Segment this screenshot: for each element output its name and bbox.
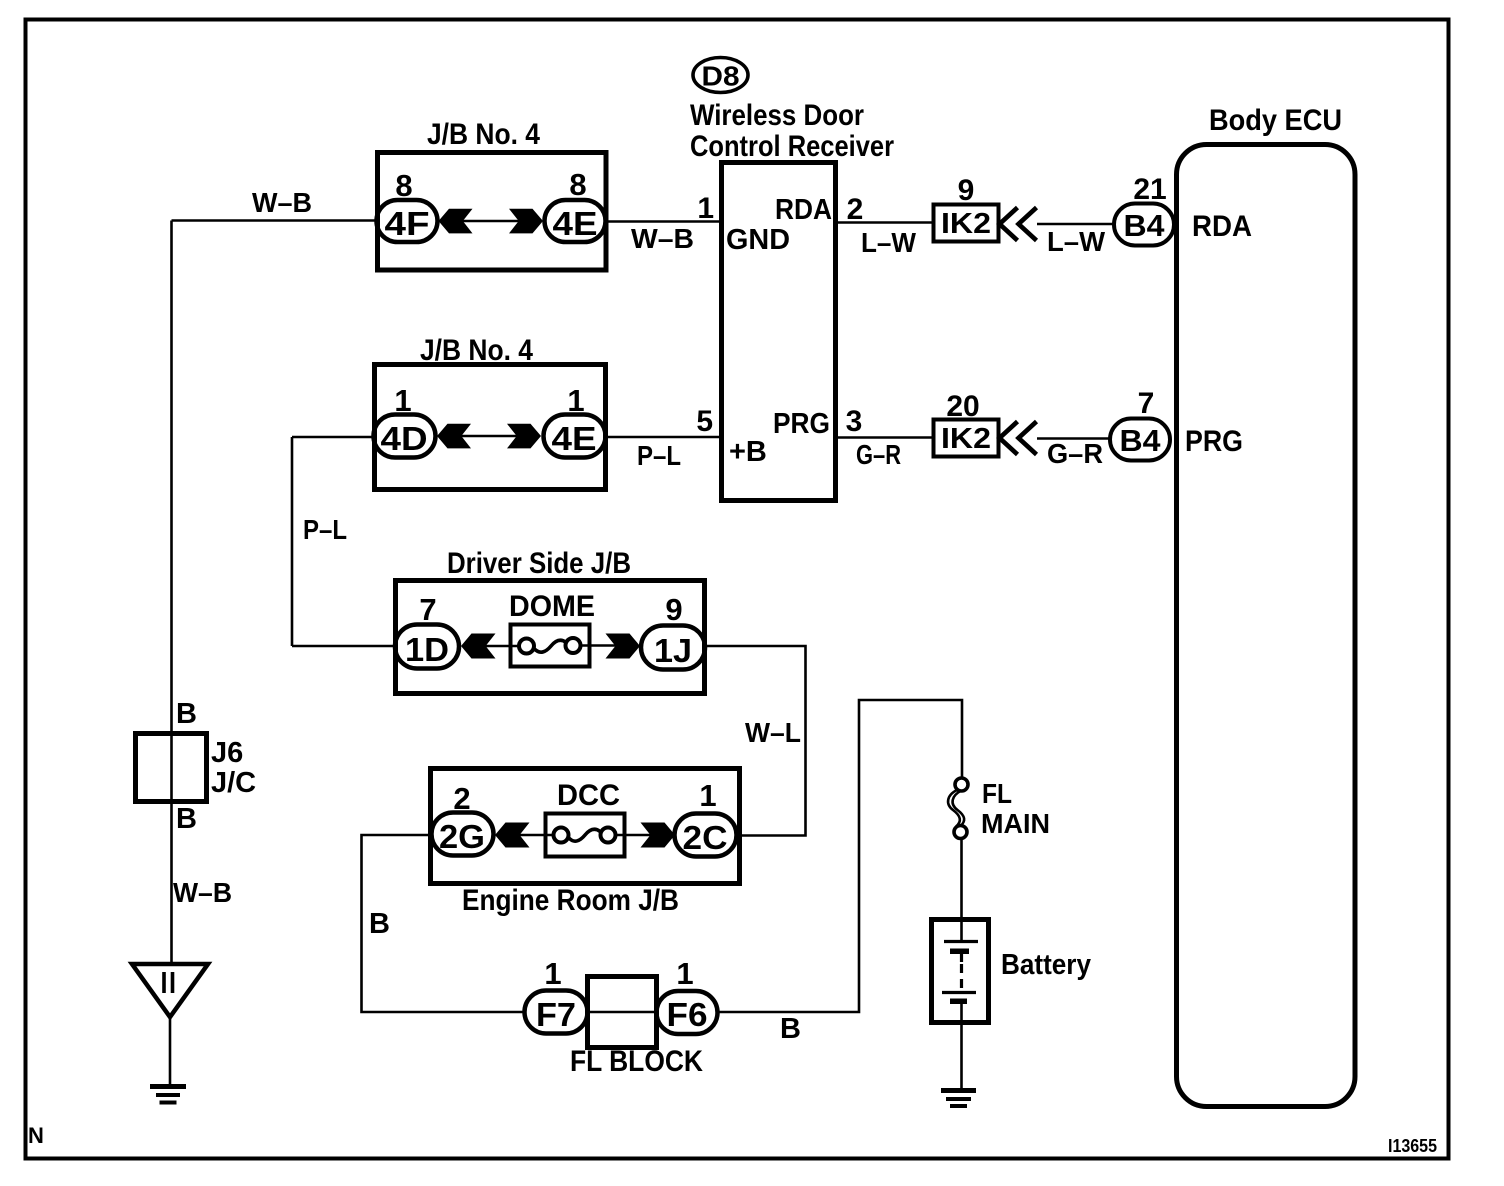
- fuse DCC right terminal: [601, 828, 616, 843]
- connector B4 PRG oval: [1110, 419, 1170, 461]
- svg-text:PRG: PRG: [1185, 425, 1243, 458]
- svg-text:Wireless Door: Wireless Door: [690, 99, 864, 132]
- svg-text:W–B: W–B: [252, 187, 312, 218]
- svg-text:DOME: DOME: [509, 590, 595, 623]
- svg-text:IK2: IK2: [941, 423, 991, 455]
- svg-text:4D: 4D: [381, 420, 428, 457]
- svg-text:J6: J6: [211, 737, 243, 769]
- fuse DOME right terminal: [566, 638, 581, 653]
- wire P-L into 1D: [292, 645, 395, 648]
- arrow chevron left 1D: [461, 634, 496, 659]
- battery thick bar: [950, 949, 969, 955]
- fuse DCC element: [569, 829, 601, 841]
- svg-text:B: B: [176, 803, 197, 835]
- svg-text:L–W: L–W: [861, 227, 917, 258]
- connector 4D oval: [374, 415, 436, 458]
- connector 4E oval: [545, 200, 606, 242]
- connector 2G oval: [432, 813, 494, 856]
- arrow chevron left 2G: [495, 823, 530, 848]
- svg-text:1: 1: [544, 956, 561, 991]
- connector 1J oval: [641, 626, 705, 670]
- connector F6 oval: [657, 991, 718, 1034]
- wire through FL BLOCK: [588, 1011, 656, 1013]
- svg-text:IK2: IK2: [941, 208, 991, 240]
- svg-text:9: 9: [665, 592, 682, 627]
- connector 2C oval: [675, 814, 737, 857]
- ground point II triangle: [132, 964, 208, 1017]
- svg-text:2C: 2C: [683, 819, 728, 856]
- svg-text:P–L: P–L: [637, 440, 681, 471]
- svg-text:2: 2: [453, 781, 470, 816]
- junction block J/B No.4 lower box: [375, 365, 606, 490]
- wire P-L vertical: [291, 437, 294, 646]
- junction block J/B No.4 upper box: [378, 153, 607, 271]
- svg-text:MAIN: MAIN: [981, 808, 1050, 839]
- wire 4E2 to receiver +B: [607, 436, 721, 439]
- svg-text:2G: 2G: [439, 818, 485, 855]
- ground point II marking: [162, 972, 166, 993]
- svg-text:DCC: DCC: [557, 779, 620, 812]
- fuse DCC box: [546, 814, 625, 857]
- wire receiver PRG to IK2: [836, 436, 933, 439]
- battery box: [932, 920, 989, 1023]
- svg-text:1D: 1D: [405, 631, 449, 668]
- svg-text:RDA: RDA: [775, 194, 832, 226]
- svg-text:B: B: [780, 1013, 801, 1045]
- arrow chevron left row1: [439, 209, 473, 234]
- svg-text:1: 1: [567, 383, 584, 418]
- svg-text:D8: D8: [702, 61, 740, 92]
- battery negative plate: [942, 991, 976, 994]
- battery dashed divider: [960, 964, 963, 990]
- svg-text:J/B No. 4: J/B No. 4: [420, 334, 533, 367]
- wire 1D to fuse: [484, 645, 519, 647]
- wire FL MAIN to battery: [960, 838, 963, 941]
- connector IK2 upper box: [934, 205, 999, 242]
- svg-text:20: 20: [946, 390, 979, 423]
- svg-text:W–L: W–L: [745, 717, 801, 748]
- wire F6 to FL MAIN: [717, 700, 962, 1012]
- svg-text:+B: +B: [729, 436, 767, 468]
- svg-text:21: 21: [1133, 173, 1166, 206]
- wire battery to ground: [960, 1001, 963, 1088]
- svg-text:P–L: P–L: [303, 514, 347, 545]
- svg-text:8: 8: [569, 167, 586, 202]
- wire W-B left vertical: [170, 221, 173, 965]
- svg-text:GND: GND: [726, 224, 790, 256]
- wire W-L from 1J: [705, 646, 806, 836]
- svg-text:W–B: W–B: [631, 223, 694, 254]
- wire triangle to ground: [169, 1017, 172, 1086]
- wire 4E to receiver GND: [606, 220, 721, 223]
- svg-text:4E: 4E: [552, 420, 597, 457]
- svg-text:B: B: [176, 698, 197, 730]
- svg-text:B4: B4: [1124, 208, 1166, 243]
- junction block Driver Side J/B box: [396, 581, 705, 694]
- svg-text:Battery: Battery: [1001, 949, 1091, 981]
- ground symbol battery: [941, 1088, 976, 1093]
- battery stem: [960, 954, 963, 962]
- svg-text:7: 7: [419, 592, 436, 627]
- fusible link FL MAIN top terminal: [955, 778, 968, 791]
- fuse DOME left terminal: [519, 639, 534, 654]
- connector 1D oval: [395, 625, 459, 669]
- wire fuse to 2C: [615, 834, 651, 836]
- svg-text:FL: FL: [982, 778, 1012, 809]
- wire W-B row1 horizontal to 4F: [172, 219, 379, 222]
- svg-text:3: 3: [846, 405, 863, 438]
- connector 4E lower oval: [544, 415, 606, 458]
- junction block Engine Room J/B box: [431, 769, 740, 884]
- arrow chevron right 1J: [606, 634, 641, 659]
- wire P-L to 4D: [292, 436, 375, 439]
- svg-text:8: 8: [395, 168, 412, 203]
- svg-text:J/B No. 4: J/B No. 4: [427, 118, 540, 151]
- fuse DOME box: [511, 625, 590, 667]
- connector IK2 lower box: [934, 420, 999, 457]
- fusible link FL MAIN element: [948, 790, 960, 827]
- wire chevron to B4 PRG: [1037, 437, 1110, 440]
- wire 2G to fuse: [519, 834, 554, 836]
- wire between chevrons row2: [459, 435, 519, 437]
- svg-text:Engine Room J/B: Engine Room J/B: [462, 884, 679, 917]
- battery negative bar: [950, 999, 967, 1005]
- svg-text:9: 9: [958, 174, 975, 207]
- arrow chevron left row2: [437, 424, 471, 449]
- svg-text:G–R: G–R: [856, 439, 901, 470]
- wire chevron to B4 RDA: [1037, 223, 1114, 226]
- fusible link FL BLOCK box: [588, 977, 657, 1048]
- svg-text:2: 2: [847, 193, 864, 226]
- ECU Body ECU box: [1177, 145, 1356, 1107]
- svg-text:1: 1: [394, 383, 411, 418]
- svg-text:1: 1: [676, 956, 693, 991]
- svg-text:B: B: [369, 908, 390, 940]
- wire fuse to 1J: [580, 644, 616, 646]
- svg-text:Driver Side J/B: Driver Side J/B: [447, 547, 631, 580]
- arrow chevron right 2C: [641, 823, 676, 848]
- connector chevrons IK2 RDA: [1000, 208, 1018, 241]
- svg-text:PRG: PRG: [773, 408, 830, 440]
- svg-text:RDA: RDA: [1192, 210, 1252, 243]
- component D8 receiver box: [722, 163, 836, 501]
- connector chevrons IK2 PRG: [1000, 422, 1018, 455]
- fusible link FL MAIN bottom terminal: [954, 826, 967, 839]
- svg-text:I13655: I13655: [1388, 1136, 1437, 1156]
- svg-text:4E: 4E: [553, 205, 598, 242]
- svg-text:W–B: W–B: [173, 877, 232, 908]
- connector D8 oval: [693, 58, 748, 93]
- wire 2G to B vertical: [362, 835, 527, 1012]
- wire receiver RDA to IK2: [836, 221, 933, 224]
- svg-text:1: 1: [697, 192, 714, 225]
- svg-text:B4: B4: [1120, 423, 1162, 458]
- fuse DCC left terminal: [554, 828, 569, 843]
- battery positive plate: [944, 940, 978, 943]
- svg-text:G–R: G–R: [1047, 438, 1103, 469]
- connector 4F oval: [377, 200, 438, 242]
- svg-text:Body ECU: Body ECU: [1209, 104, 1342, 137]
- svg-text:1J: 1J: [654, 632, 692, 669]
- svg-text:1: 1: [699, 778, 716, 813]
- ground symbol left: [150, 1084, 186, 1089]
- svg-text:FL BLOCK: FL BLOCK: [570, 1045, 703, 1078]
- arrow chevron right row2: [507, 424, 541, 449]
- connector B4 RDA oval: [1114, 204, 1174, 246]
- svg-text:F6: F6: [667, 996, 708, 1033]
- svg-text:Control Receiver: Control Receiver: [690, 130, 894, 163]
- svg-text:N: N: [28, 1123, 44, 1148]
- arrow chevron right row1: [509, 209, 543, 234]
- wire between chevrons row1: [460, 220, 521, 222]
- svg-text:L–W: L–W: [1047, 226, 1106, 257]
- junction connector J6 J/C box: [136, 734, 207, 802]
- svg-text:4F: 4F: [385, 205, 430, 242]
- svg-text:5: 5: [696, 405, 713, 438]
- connector F7 oval: [525, 991, 588, 1034]
- svg-text:J/C: J/C: [211, 767, 256, 799]
- fuse DOME element: [534, 640, 566, 652]
- svg-text:F7: F7: [536, 996, 576, 1033]
- svg-text:7: 7: [1138, 387, 1155, 420]
